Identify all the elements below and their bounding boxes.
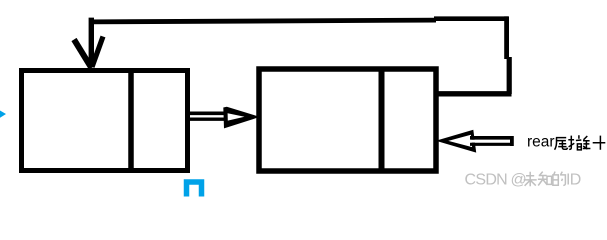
wire loop top segment A: [89, 20, 436, 22]
node 2 box (rear node): [259, 69, 436, 171]
label glyph 指 (finger): [568, 135, 581, 150]
hollow left arrow: shaft bottom line: [470, 143, 513, 146]
watermark emboss underlay: [465, 172, 581, 189]
hollow double right arrow: shaft top line: [185, 112, 227, 116]
hollow double right arrow: shaft bottom line: [185, 117, 227, 120]
watermark glyph 未: [524, 172, 537, 186]
wire loop right vertical lower: [507, 57, 512, 94]
watermark glyph 的: [553, 172, 565, 186]
wire loop bottom return to node 2: [437, 91, 512, 96]
down arrow head right arm: [92, 37, 103, 68]
blue pi mark under node 1: [187, 182, 202, 197]
hollow left arrow: shaft right cap: [510, 136, 514, 146]
watermark glyph 知: [538, 172, 552, 186]
node 1 box (front node): [22, 71, 188, 171]
hollow left arrow: shaft mouth white: [468, 140, 513, 143]
hollow double right arrow: head inner white: [228, 113, 245, 120]
svg-text:CSDN: CSDN: [465, 172, 508, 189]
hollow double right arrow (node1 next pointer): head: [223, 107, 259, 129]
label glyph 针 (needle): [583, 136, 606, 150]
down arrow shaft: [89, 18, 94, 63]
hollow left arrow (rear pointer): head: [436, 130, 476, 153]
down arrow head left arm: [74, 40, 92, 69]
wire loop top segment B: [434, 16, 508, 21]
hollow left arrow: shaft top line: [470, 136, 513, 140]
blue arrow fragment at left edge: [0, 111, 6, 118]
hollow left arrow: head inner white: [448, 135, 472, 147]
label glyph 尾 (tail): [555, 138, 568, 150]
wire loop right vertical upper: [504, 16, 509, 59]
svg-text:ID: ID: [566, 172, 581, 189]
node 1 divider: [128, 68, 134, 171]
node 2 divider: [379, 69, 385, 171]
svg-text:rear: rear: [527, 134, 555, 151]
